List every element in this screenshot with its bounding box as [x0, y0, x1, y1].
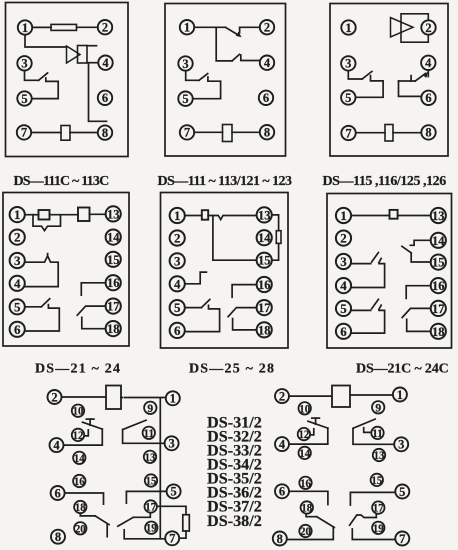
svg-text:6: 6: [14, 322, 21, 337]
svg-text:3: 3: [14, 253, 21, 268]
svg-text:1: 1: [174, 208, 181, 223]
svg-text:19: 19: [146, 523, 157, 535]
svg-text:18: 18: [432, 324, 445, 339]
svg-text:14: 14: [74, 453, 85, 465]
svg-text:7: 7: [21, 126, 27, 140]
svg-text:DS—115 ,116/125 ,126: DS—115 ,116/125 ,126: [323, 174, 447, 189]
svg-text:5: 5: [174, 300, 181, 315]
svg-text:14: 14: [107, 230, 120, 245]
svg-text:6: 6: [174, 323, 181, 338]
svg-text:2: 2: [340, 231, 347, 246]
svg-text:DS—111 ~ 113/121 ~ 123: DS—111 ~ 113/121 ~ 123: [158, 174, 292, 189]
svg-text:16: 16: [107, 275, 120, 290]
svg-text:8: 8: [264, 126, 270, 140]
svg-text:3: 3: [168, 437, 174, 451]
svg-text:1: 1: [22, 21, 28, 35]
svg-text:16: 16: [300, 478, 311, 490]
svg-text:5: 5: [182, 92, 188, 106]
svg-text:12: 12: [73, 430, 84, 442]
svg-text:16: 16: [432, 278, 445, 293]
svg-text:11: 11: [372, 428, 383, 440]
svg-text:14: 14: [258, 230, 271, 245]
svg-text:16: 16: [74, 476, 85, 488]
svg-text:7: 7: [169, 532, 175, 546]
svg-text:1: 1: [345, 21, 351, 35]
svg-text:15: 15: [107, 252, 120, 267]
svg-text:2: 2: [14, 230, 21, 245]
svg-text:15: 15: [371, 475, 382, 487]
svg-text:2: 2: [425, 21, 431, 35]
svg-text:2: 2: [174, 230, 181, 245]
svg-text:3: 3: [345, 57, 351, 71]
svg-text:7: 7: [345, 126, 351, 140]
svg-text:11: 11: [143, 428, 154, 440]
svg-text:DS-38/2: DS-38/2: [207, 512, 262, 530]
svg-text:2: 2: [51, 390, 57, 404]
svg-text:8: 8: [55, 530, 61, 544]
svg-text:9: 9: [147, 403, 153, 415]
svg-text:3: 3: [398, 438, 404, 452]
svg-text:20: 20: [300, 526, 311, 538]
svg-text:17: 17: [107, 299, 120, 314]
svg-text:17: 17: [432, 301, 445, 316]
svg-text:5: 5: [21, 92, 27, 106]
svg-text:18: 18: [75, 502, 86, 514]
svg-text:13: 13: [374, 450, 385, 462]
svg-text:4: 4: [425, 56, 432, 70]
svg-text:1: 1: [397, 388, 403, 402]
svg-text:18: 18: [258, 322, 271, 337]
svg-text:DS—25 ~ 28: DS—25 ~ 28: [189, 362, 275, 377]
svg-text:2: 2: [102, 21, 108, 35]
svg-text:3: 3: [21, 57, 27, 71]
svg-text:19: 19: [373, 523, 384, 535]
svg-text:5: 5: [399, 485, 405, 499]
svg-text:17: 17: [373, 503, 384, 515]
svg-text:6: 6: [102, 91, 108, 105]
svg-text:12: 12: [299, 429, 310, 441]
svg-text:17: 17: [258, 300, 271, 315]
svg-text:13: 13: [258, 207, 271, 222]
svg-text:4: 4: [174, 276, 181, 291]
svg-text:2: 2: [264, 21, 270, 35]
svg-text:14: 14: [432, 233, 445, 248]
svg-text:13: 13: [432, 208, 445, 223]
svg-text:7: 7: [184, 126, 190, 140]
svg-text:1: 1: [14, 207, 21, 222]
svg-text:4: 4: [53, 438, 60, 452]
svg-text:10: 10: [299, 403, 310, 415]
svg-text:20: 20: [75, 523, 86, 535]
svg-text:1: 1: [184, 21, 190, 35]
svg-text:13: 13: [107, 206, 120, 221]
svg-text:5: 5: [170, 485, 176, 499]
svg-text:14: 14: [299, 448, 310, 460]
svg-text:4: 4: [102, 56, 109, 70]
svg-text:15: 15: [432, 255, 445, 270]
svg-text:18: 18: [301, 502, 312, 514]
svg-text:16: 16: [258, 277, 271, 292]
svg-text:15: 15: [146, 475, 157, 487]
svg-text:6: 6: [263, 91, 269, 105]
svg-text:18: 18: [107, 321, 120, 336]
svg-text:8: 8: [425, 126, 431, 140]
svg-text:4: 4: [279, 437, 286, 451]
svg-text:7: 7: [399, 532, 405, 546]
svg-text:17: 17: [145, 501, 156, 513]
svg-text:5: 5: [340, 301, 347, 316]
svg-text:3: 3: [182, 57, 188, 71]
svg-text:13: 13: [145, 452, 156, 464]
svg-text:6: 6: [425, 91, 431, 105]
svg-text:DS—21C ~ 24C: DS—21C ~ 24C: [356, 362, 449, 377]
svg-text:10: 10: [73, 406, 84, 418]
svg-text:4: 4: [340, 278, 347, 293]
svg-text:5: 5: [345, 91, 351, 105]
svg-text:DS—21 ~ 24: DS—21 ~ 24: [35, 362, 121, 377]
svg-text:15: 15: [258, 253, 271, 268]
svg-text:8: 8: [102, 126, 108, 140]
svg-text:4: 4: [264, 56, 271, 70]
svg-text:8: 8: [277, 532, 283, 546]
svg-text:3: 3: [340, 254, 347, 269]
svg-text:4: 4: [14, 276, 21, 291]
svg-text:2: 2: [279, 389, 285, 403]
svg-text:6: 6: [279, 485, 285, 499]
svg-text:1: 1: [170, 392, 176, 406]
svg-text:5: 5: [14, 299, 21, 314]
svg-text:1: 1: [340, 208, 347, 223]
svg-text:6: 6: [340, 324, 347, 339]
svg-text:DS—111C ~ 113C: DS—111C ~ 113C: [14, 174, 110, 189]
svg-text:3: 3: [174, 253, 181, 268]
svg-text:9: 9: [375, 402, 381, 414]
svg-text:6: 6: [54, 486, 60, 500]
